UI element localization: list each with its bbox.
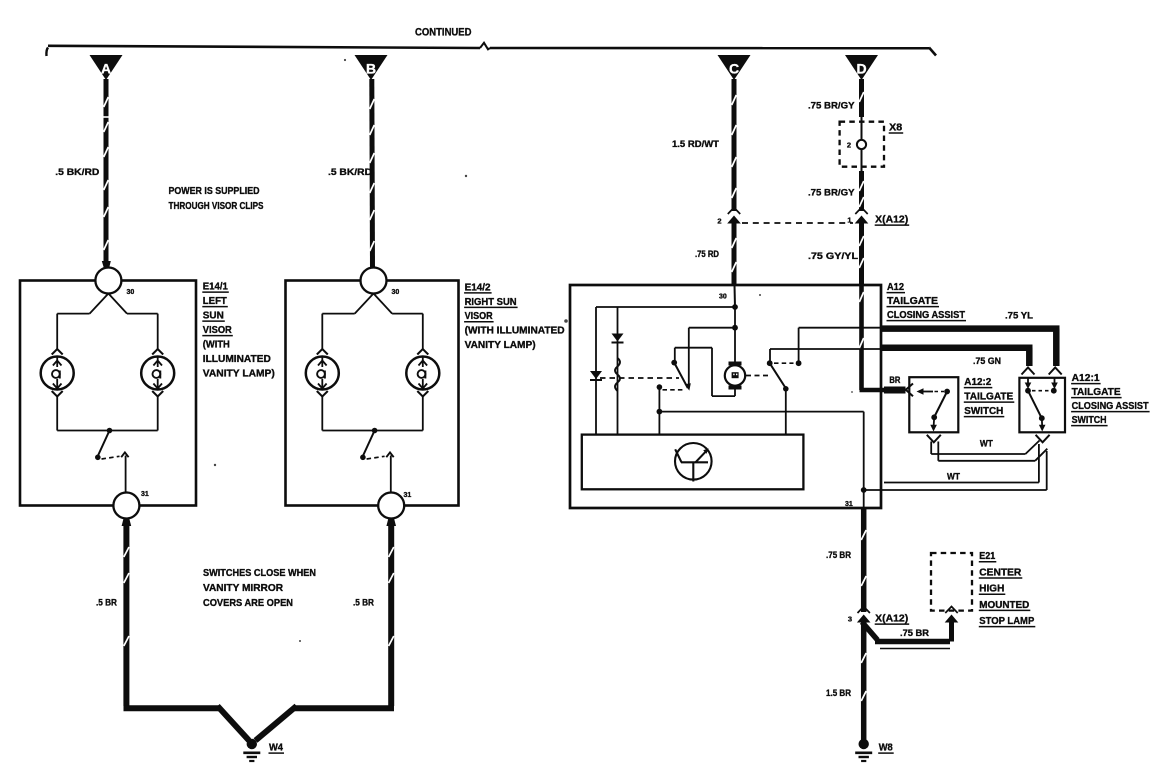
switch blade (A12:1) [1028,391,1041,418]
svg-text:COVERS ARE OPEN: COVERS ARE OPEN [203,598,293,609]
connector D [845,55,878,80]
svg-text:(WITH ILLUMINATED: (WITH ILLUMINATED [465,326,565,337]
svg-text:31: 31 [845,501,853,508]
switch blade (E14/1) [98,431,110,457]
svg-text:HIGH: HIGH [979,584,1004,595]
component box E14/2 [286,281,459,506]
switch blade (A12:2) [935,392,948,417]
switch contact arrow (E14/1) [121,452,128,457]
svg-text:VISOR: VISOR [203,325,233,336]
terminal circle 31 (E14/1) [113,493,139,519]
control module sub-box [582,435,804,490]
svg-text:SWITCHES CLOSE WHEN: SWITCHES CLOSE WHEN [203,568,316,579]
vanity lamp right (E14/2) [417,349,428,355]
svg-text:W8: W8 [879,743,893,754]
svg-text:E14/2: E14/2 [465,282,491,293]
relay coil squiggle [615,358,620,391]
wire 31 inner vertical [863,412,865,508]
switch arrow contact (A12:2) [921,391,933,393]
wire split below 30 (E14/2) [355,294,374,314]
component box A12:2 [909,377,958,432]
switch S1 dashed link [663,389,686,391]
svg-text:WT: WT [947,472,960,483]
svg-text:B: B [366,61,376,77]
wire .5 BK/RD from B to E14/2 terminal 30 [369,79,375,268]
svg-text:VISOR: VISOR [465,311,494,322]
connector X8 (dashed box) [840,122,884,167]
svg-text:30: 30 [127,289,135,296]
svg-text:BR: BR [889,375,900,386]
svg-text:ILLUMINATED: ILLUMINATED [203,354,271,365]
connector C [718,55,751,80]
wire split below 30 [90,294,109,314]
wire .75 BR/GY lower [859,171,864,211]
scan specks [344,59,346,61]
node switch junction (E14/2) [372,428,378,434]
diode D1 [590,371,602,379]
node junction 30 rail [732,304,738,310]
wire top bus rail [48,46,480,48]
connector V below A12:2 [927,435,941,443]
ground W4 [247,739,257,749]
wire .5 BR left [123,520,129,706]
svg-text:WT: WT [980,439,993,450]
arrow to bottom terminal (A12:1) [1041,418,1043,426]
wire .75 BR/GY from D to X8 [859,79,864,117]
dashed actuation link [600,377,679,379]
wire WT from A12:1 into A12 (hollow) [1038,444,1040,483]
svg-text:CENTER: CENTER [979,567,1022,578]
component box E21 (dashed) [931,553,972,611]
connector chevron GN at A12:1 [1022,368,1035,375]
connector V below A12:1 [1036,435,1050,443]
svg-text:A12: A12 [887,282,904,293]
node WT junction [861,487,867,493]
wire left branch 1 (diode) [595,307,597,435]
svg-text:2: 2 [847,141,851,150]
svg-text:C: C [729,61,739,77]
svg-text:CONTINUED: CONTINUED [415,27,472,39]
wire WT from A12:2 to A12:1 (hollow) [930,442,932,455]
svg-text:1.5 RD/WT: 1.5 RD/WT [672,139,719,150]
svg-text:1.5 BR: 1.5 BR [826,688,851,699]
arrow to bottom terminal (A12:2) [933,417,936,426]
switch S2 blade [770,363,786,387]
wire net B (motor return loop) [675,347,712,349]
svg-text:.5 BK/RD: .5 BK/RD [55,167,99,178]
terminal circle 30 (E14/2) [361,268,387,294]
switch S2 contact (YL) [796,360,802,366]
svg-text:X8: X8 [889,122,902,133]
wire .75 BR from A12 terminal 31 [861,508,867,612]
switch contact arrow (E14/2) [386,452,393,457]
wire .5 BK/RD from A to E14/1 terminal 30 [104,79,109,268]
vanity lamp right (E14/1) [152,349,163,355]
connector chevron BR at A12:2 [906,384,913,397]
diode D2 [612,334,624,342]
svg-text:VANITY MIRROR: VANITY MIRROR [203,583,284,594]
svg-text:.75 RD: .75 RD [695,249,719,260]
svg-text:.75 YL: .75 YL [1005,311,1033,322]
component box A12:1 [1019,378,1065,433]
node 31 rail junction left [657,409,663,415]
svg-text:.75 BR/GY: .75 BR/GY [808,101,855,112]
wire 31 rail horizontal [659,411,863,413]
svg-text:STOP LAMP: STOP LAMP [979,616,1034,627]
switch S2 pivot [783,386,789,392]
wire branch to E21 [862,622,878,640]
wedge at circle 30 [102,261,111,268]
svg-text:E21: E21 [979,551,995,562]
svg-text:TAILGATE: TAILGATE [1072,387,1121,398]
switch S2 contact (GN) [767,360,773,366]
wire 1.5 BR [861,620,867,740]
connector chevron at E21 [945,607,957,614]
wire .5 BR right [388,520,394,706]
connector B [355,55,388,80]
svg-text:D: D [856,61,866,77]
wire .75 RD [732,223,737,286]
svg-text:A12:1: A12:1 [1072,373,1100,384]
wire GY/YL inside A12 (thick) [859,285,864,390]
svg-text:.75 BR: .75 BR [826,550,851,561]
svg-text:POWER IS SUPPLIED: POWER IS SUPPLIED [169,186,260,197]
component box E14/1 [20,281,196,506]
svg-text:MOUNTED: MOUNTED [979,600,1029,611]
wire .75 GY/YL [859,223,864,286]
wire 1.5 RD/WT from C [732,79,737,211]
wire to BR exit [860,388,885,393]
svg-text:.75 GY/YL: .75 GY/YL [808,251,858,262]
svg-text:RIGHT SUN: RIGHT SUN [465,297,517,308]
svg-text:A12:2: A12:2 [964,377,991,388]
svg-text:SUN: SUN [203,311,224,322]
terminal arrows inside A12:1 [1027,378,1029,385]
svg-text:30: 30 [719,294,727,301]
svg-text:30: 30 [392,289,400,296]
wire .75 GN (thick) [881,344,1033,351]
svg-text:SWITCH: SWITCH [1072,415,1107,426]
svg-text:.75 BR/GY: .75 BR/GY [808,188,855,199]
wire pivot to 31 rail [658,388,660,435]
svg-text:W4: W4 [269,743,283,754]
svg-text:X(A12): X(A12) [875,215,908,226]
svg-text:(WITH: (WITH [203,340,230,351]
wire lamp bottoms to switch rail [56,396,58,431]
dashed link motor to S2 [746,375,770,377]
vanity lamp left (E14/2) [317,349,328,355]
svg-text:.75 GN: .75 GN [973,356,1001,367]
svg-text:.5 BR: .5 BR [96,598,117,609]
wire lamp bottoms to switch rail (E14/2) [321,396,323,431]
svg-text:E14/1: E14/1 [203,282,228,293]
connector chevron YL at A12:1 [1049,368,1062,375]
svg-text:X(A12): X(A12) [875,614,908,625]
svg-text:SWITCH: SWITCH [964,406,1003,417]
switch S1 pivot [657,384,663,390]
svg-text:VANITY LAMP): VANITY LAMP) [203,369,275,380]
wire 30 feed inside A12 [734,285,737,307]
switch S1 upper contact [671,360,677,366]
svg-text:.5 BK/RD: .5 BK/RD [328,167,372,178]
terminal circle 31 (E14/2) [378,493,404,519]
wire .75 YL (thick) [881,325,1060,332]
wire net A to blade stop [689,327,735,329]
switch dashed link (E14/2) [367,456,385,459]
switch S1 blade [674,363,688,388]
vanity lamp left (E14/1) [52,349,63,355]
svg-text:A: A [101,61,111,77]
svg-text:.5 BR: .5 BR [353,598,374,609]
switch blade (E14/2) [363,431,375,457]
svg-text:LEFT: LEFT [203,296,227,307]
switch S2 dashed between contacts [774,362,794,364]
X8 pin circle 2 [857,140,866,149]
component box A12 [570,285,881,508]
svg-text:31: 31 [141,491,149,498]
wire through X8 [861,117,863,139]
dashed connector line between 2 and 1 [742,222,853,224]
wire diagonal to W4 left [218,706,250,741]
transistor Q1 [675,443,712,480]
svg-text:CLOSING ASSIST: CLOSING ASSIST [1072,401,1149,412]
break mark on rail [480,43,490,50]
svg-text:31: 31 [404,492,412,499]
terminal circle 30 (E14/1) [95,268,121,294]
node motor top junction [732,325,738,331]
svg-text:2: 2 [717,217,721,226]
svg-text:VANITY LAMP): VANITY LAMP) [465,340,536,351]
node switch junction (E14/1) [107,428,113,434]
switch dashed link (E14/1) [102,456,120,459]
svg-text:3: 3 [848,615,852,624]
motor M [725,365,745,385]
svg-text:TAILGATE: TAILGATE [964,392,1013,403]
connector A [90,55,123,80]
ground W8 [859,739,869,749]
svg-text:THROUGH VISOR CLIPS: THROUGH VISOR CLIPS [169,201,264,212]
wire left branch 2 (diode + coil) [617,307,619,435]
svg-text:.75 BR: .75 BR [900,628,929,639]
wire BR (thick) [884,387,906,394]
svg-text:CLOSING ASSIST: CLOSING ASSIST [887,310,965,321]
dashed link (A12:1) [1032,390,1050,392]
svg-text:TAILGATE: TAILGATE [887,296,938,307]
connector 3 X(A12) [858,607,870,614]
connector 1 X(A12) on D wire [855,208,867,215]
connector 2 X(A12) on C wire [728,208,740,215]
wire diagonal to W4 right [256,706,297,741]
